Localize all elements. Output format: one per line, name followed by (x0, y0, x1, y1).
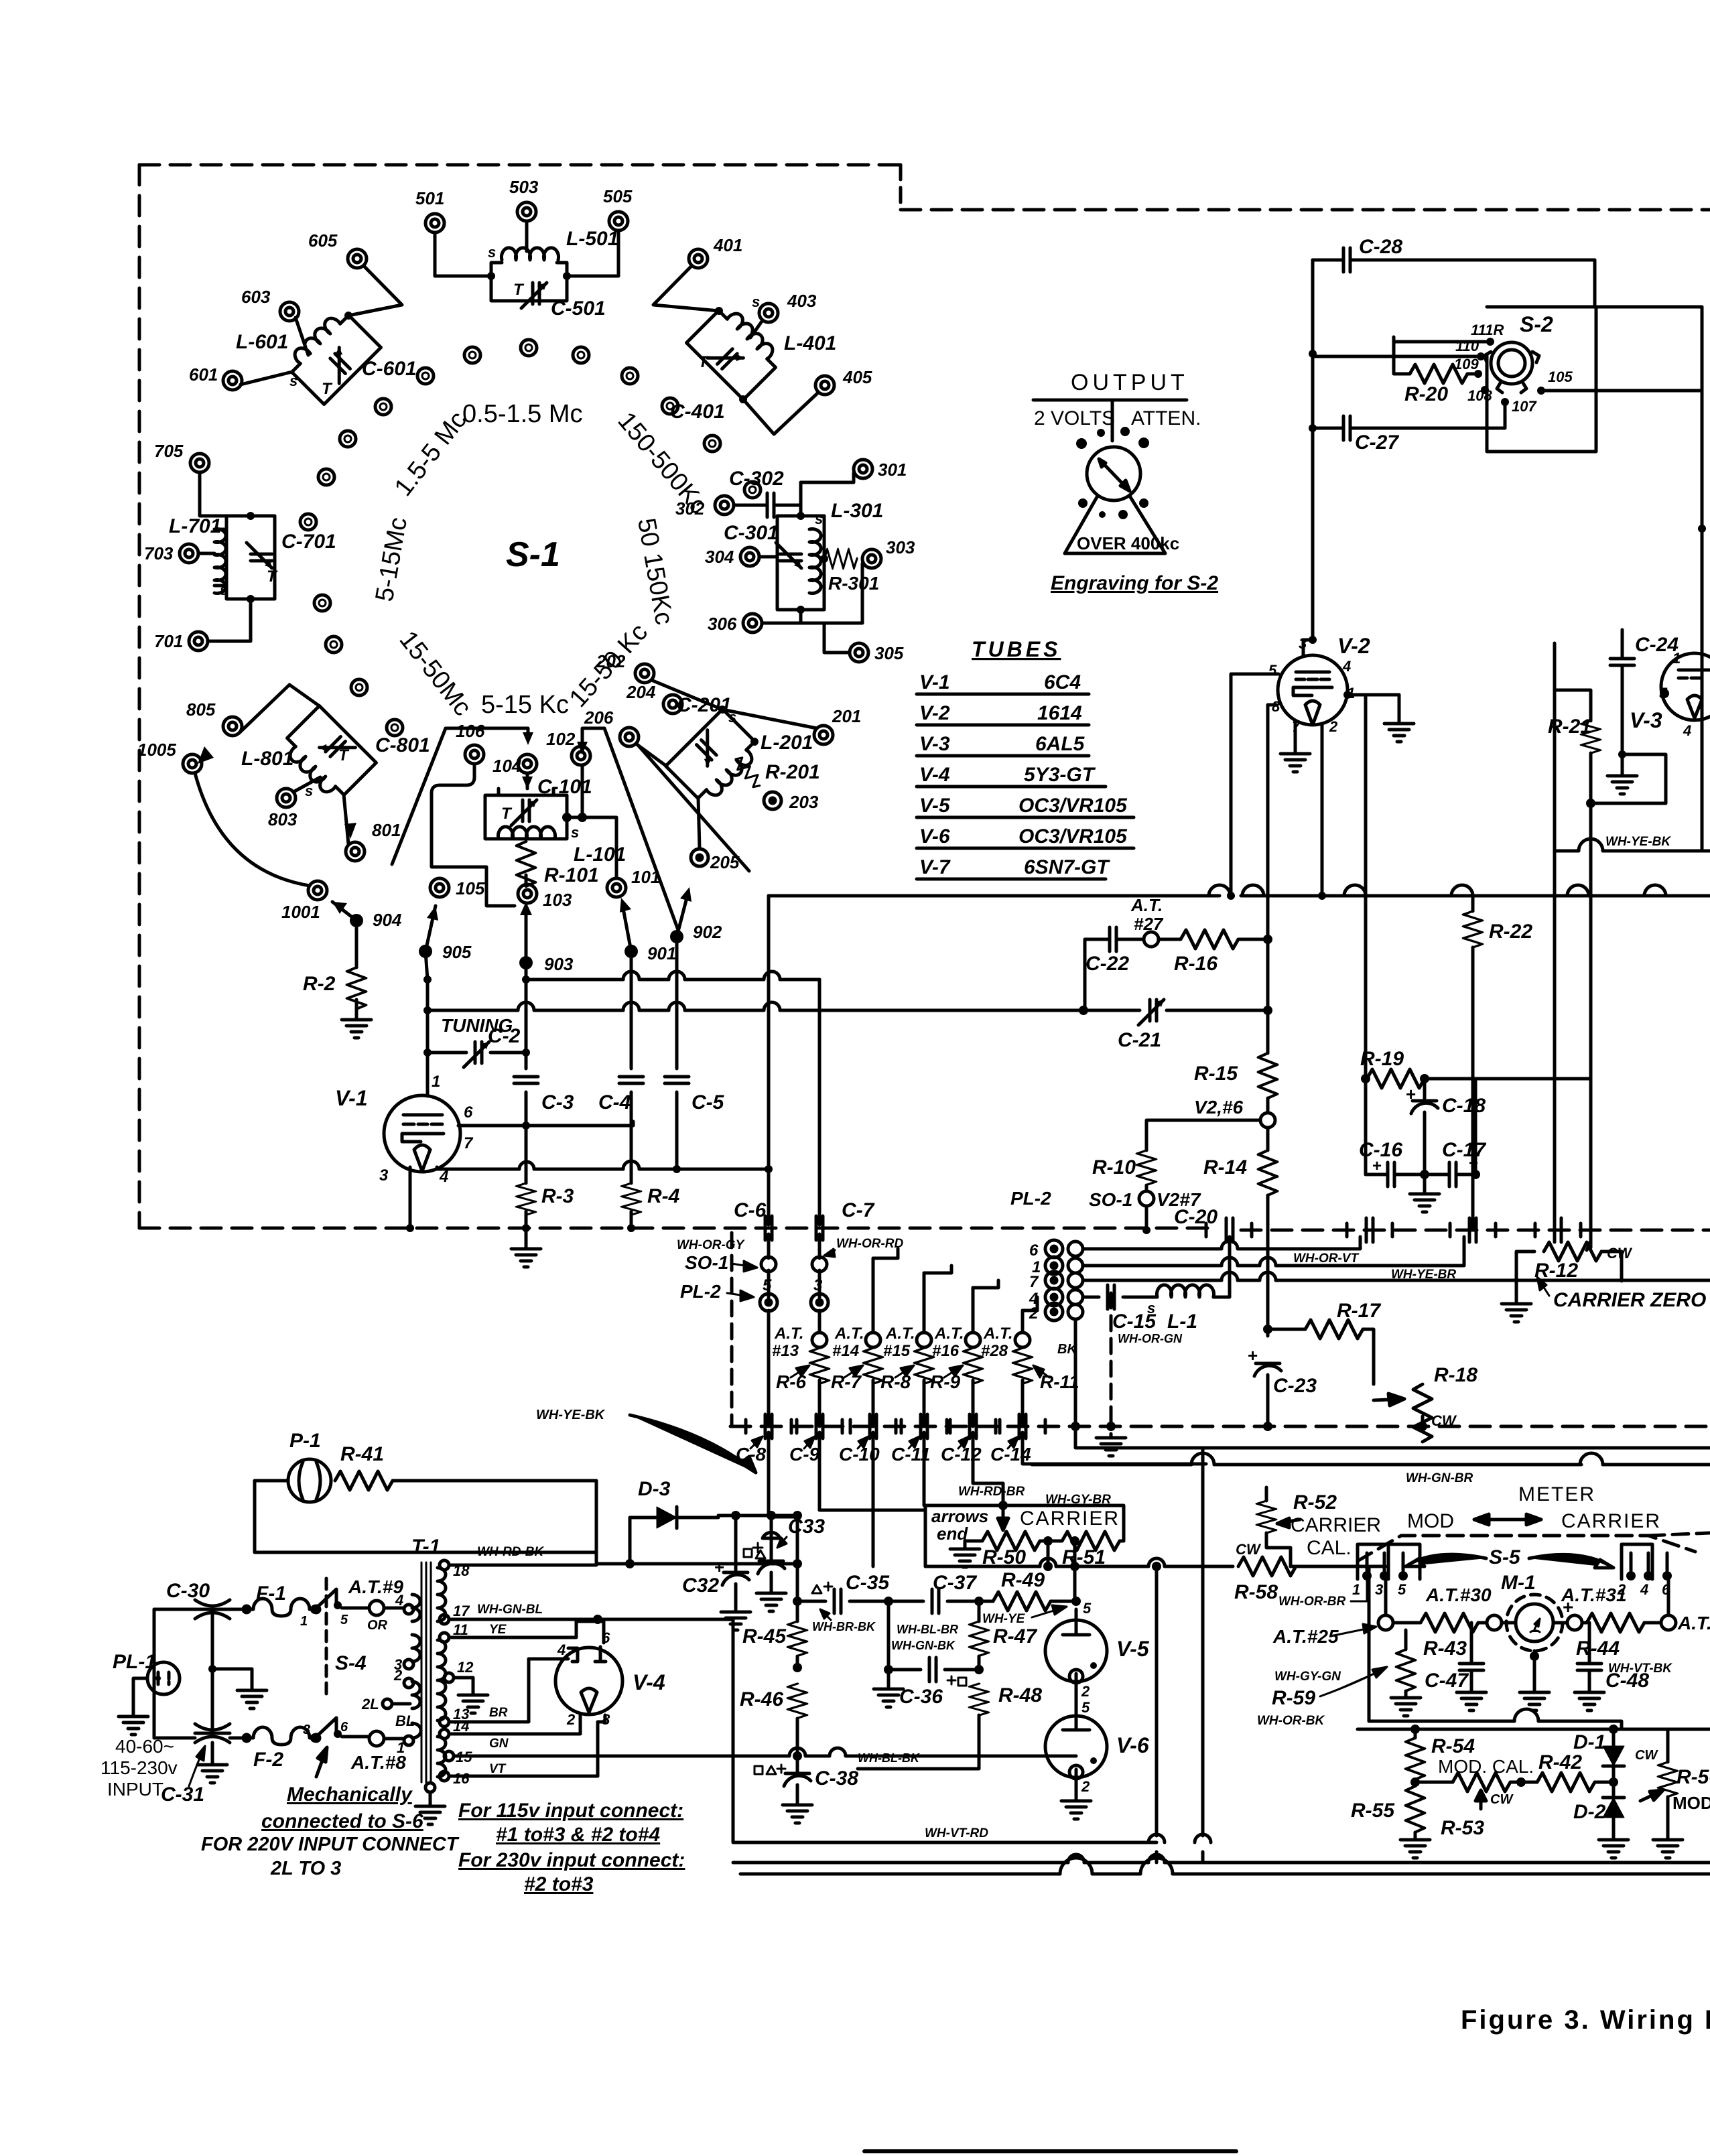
tube V-2 internals (1293, 672, 1332, 725)
wire 304 to C-301 (759, 555, 777, 559)
wire 110 to left riser (1313, 355, 1481, 358)
wire C-23 to dashed shield (1266, 1375, 1270, 1426)
hook curl on 106 wire (432, 785, 440, 793)
svg-text:C-2: C-2 (488, 1025, 521, 1047)
variable capacitor C-301 (776, 543, 801, 568)
svg-text:R-17: R-17 (1337, 1300, 1381, 1322)
svg-text:306: 306 (708, 614, 737, 634)
wire A.T.25 to meter (1393, 1621, 1514, 1625)
tube V-1 internals (402, 1115, 444, 1171)
wire R-19 branch (1425, 1077, 1475, 1081)
wire pin1 to WH-YE-BR cap (1083, 1237, 1464, 1266)
terminal 105 (430, 878, 449, 897)
meter module box (1369, 1566, 1710, 1729)
wire A.T.15 top corner (924, 1266, 951, 1273)
terminal 306 (743, 614, 762, 632)
svg-text:A.T.: A.T. (885, 1325, 915, 1343)
svg-text:V2,#6: V2,#6 (1194, 1097, 1244, 1118)
inductor L-101 coil (499, 827, 555, 839)
junction dots on y=2581 (1410, 1725, 1420, 1734)
svg-text:#15: #15 (883, 1342, 911, 1360)
ground below V-2 pin7 (1280, 750, 1310, 772)
svg-text:C-201: C-201 (677, 694, 732, 716)
svg-text:R-51: R-51 (1062, 1546, 1106, 1568)
wire 803 to L-801 coil (293, 777, 320, 792)
svg-text:405: 405 (842, 367, 872, 387)
resistor R-46 (788, 1684, 807, 1719)
wire V-1 cathode pin 4 to the right (437, 1167, 769, 1169)
contact 109 (1474, 370, 1482, 378)
T-1 terminal 15 tap (444, 1751, 454, 1761)
wire V-2 pin1 to ground (1345, 695, 1399, 720)
fuse F-2 (243, 1727, 320, 1745)
svg-text:OR: OR (367, 1618, 388, 1633)
svg-text:206: 206 (584, 708, 614, 728)
inductor L-801 tank (rotated) (279, 706, 377, 804)
svg-text:R-53: R-53 (1441, 1817, 1484, 1839)
svg-text:R-20: R-20 (1404, 383, 1448, 405)
svg-text:5: 5 (340, 1613, 348, 1627)
wire 303 to R-301 (824, 563, 862, 623)
svg-text:GN: GN (489, 1737, 509, 1751)
junction dot L-201 corners (718, 705, 726, 714)
tube V-4 envelope (555, 1647, 622, 1714)
wire C-6 column to caps row (767, 1234, 771, 1426)
bottom page rule (864, 2149, 1236, 2153)
wire GN from 14 to V-4 pin2 (449, 1715, 580, 1734)
terminal 501 (425, 214, 444, 232)
svg-text:L-201: L-201 (761, 732, 813, 754)
meter needle (1530, 1619, 1540, 1632)
fuse F-1 (243, 1599, 320, 1616)
wire R-49 to V-5 column (1051, 1600, 1076, 1603)
terminal A.T.#16 (966, 1333, 980, 1347)
svg-text:111R: 111R (1471, 322, 1504, 338)
wire from loop to D-3 branch (595, 1552, 598, 1562)
svg-text:PL-1: PL-1 (113, 1651, 156, 1673)
svg-text:For 115v input connect:: For 115v input connect: (458, 1800, 683, 1822)
svg-text:WH-GN-BR: WH-GN-BR (1406, 1471, 1473, 1485)
wire through C-2 (427, 1051, 526, 1055)
svg-text:R-16: R-16 (1174, 953, 1218, 975)
svg-text:BR: BR (489, 1706, 508, 1720)
arrow C33 (777, 1537, 787, 1548)
T-1 terminal 17 (440, 1615, 449, 1624)
wire WH-GN-BL from 17 (449, 1619, 733, 1668)
capacitor C-20 on shield line (1226, 1218, 1233, 1242)
svg-text:601: 601 (189, 364, 218, 385)
wire C-48 column (1588, 1623, 1591, 1688)
terminal 302 (715, 496, 734, 515)
svg-text:R-47: R-47 (993, 1625, 1037, 1647)
capacitor C33 electrolytic (758, 1561, 785, 1574)
wire R-55 to ground (1414, 1832, 1417, 1836)
wire C32 column (734, 1515, 738, 1608)
hops on main B wire (1040, 1558, 1165, 1566)
wire y=2154 stub from pin2 column (1075, 1426, 1203, 1448)
svg-text:A.T.: A.T. (983, 1325, 1013, 1343)
terminal 201 (814, 726, 833, 744)
funnel right diagonal to 902 (604, 728, 678, 930)
terminal 701 (189, 632, 208, 651)
svg-text:CW: CW (1490, 1792, 1514, 1807)
svg-text:SO-1: SO-1 (1089, 1189, 1132, 1210)
svg-text:V-3: V-3 (919, 733, 950, 755)
svg-text:1001: 1001 (281, 902, 320, 922)
T-1 bottom core terminal and ground (425, 1783, 435, 1792)
wire 901 column down through C-4 R-4 (630, 951, 633, 1228)
wire: dashed enclosure top step (899, 165, 903, 210)
svg-text:4: 4 (1342, 658, 1351, 675)
wire A.T.28 top corner (1023, 1297, 1037, 1310)
terminal A.T.#28 (1015, 1333, 1030, 1347)
inductor L-601 tank (rotated) (283, 307, 381, 405)
svg-text:OC3/VR105: OC3/VR105 (1018, 825, 1128, 848)
junction dot C-22 left riser at y1508 (1079, 1006, 1088, 1015)
ground below C-47 (1457, 1688, 1486, 1710)
svg-text:R-201: R-201 (765, 761, 820, 783)
junction dot C-21 right (1263, 1006, 1272, 1015)
svg-text:WH-VT-BK: WH-VT-BK (1608, 1662, 1672, 1676)
diode D-3 (657, 1507, 677, 1528)
svg-text:303: 303 (886, 537, 915, 557)
svg-text:4: 4 (1683, 722, 1691, 739)
jack ring position 10 (318, 469, 334, 485)
resistor R-14 (1258, 1150, 1277, 1195)
wire 902 column down through C-5 (675, 937, 679, 1169)
svg-text:105: 105 (456, 878, 485, 898)
junction dot C-24 bottom (1618, 750, 1626, 758)
svg-text:CARRIER ZERO: CARRIER ZERO (1553, 1289, 1706, 1311)
svg-text:CARRIER: CARRIER (1020, 1507, 1120, 1530)
junction dot L-401 corners (715, 307, 723, 315)
contact 111R (1486, 338, 1494, 346)
wire: hops on y=1462 (623, 971, 780, 980)
switch S-2 enclosure box (1487, 307, 1596, 452)
wire C-35 to C-37 (889, 1600, 978, 1603)
contact 107 (1501, 398, 1509, 406)
wire C-7 column to caps row (818, 1234, 821, 1333)
resistor R-12 (pot) (1544, 1242, 1601, 1261)
jack ring position 2 (521, 340, 537, 356)
svg-text:6SN7-GT: 6SN7-GT (1024, 856, 1110, 878)
junction dot x1326 (884, 1597, 893, 1606)
resistor R-10 (1137, 1150, 1156, 1185)
wire R-47 column (978, 1601, 981, 1670)
switch S-4 lower pole (310, 1733, 320, 1743)
wire: hops on y=1508 (518, 1002, 780, 1010)
feedthrough capacitor C-30 (195, 1600, 230, 1619)
svg-text:BL: BL (395, 1712, 415, 1729)
svg-text:R-44: R-44 (1576, 1637, 1620, 1660)
svg-text:305: 305 (874, 643, 904, 663)
contact 903 (519, 956, 533, 969)
svg-text:+: + (1406, 1084, 1416, 1104)
arrow C-10 (858, 1436, 868, 1448)
junction dot L-601 top corner (344, 312, 352, 320)
terminal 705 (190, 454, 209, 472)
variable capacitor C-21 (1138, 1000, 1164, 1025)
svg-text:A.T.: A.T. (1130, 895, 1163, 915)
wire pin2 down to caps row (1074, 1319, 1077, 1426)
svg-text:R-55: R-55 (1351, 1800, 1395, 1822)
switch S-5 left contact box (1358, 1544, 1388, 1579)
arrow to CARRIER ZERO (1537, 1277, 1549, 1296)
box around regulator section (733, 1668, 1157, 1842)
vertical riser x=317 (211, 1609, 214, 1733)
svg-text:R-48: R-48 (998, 1684, 1042, 1706)
resistor R-4 (622, 1183, 641, 1215)
jack ring position 15 (351, 679, 367, 695)
jack ring position 4 (417, 368, 434, 384)
svg-text:C-31: C-31 (161, 1783, 204, 1806)
wire R-46 column (796, 1719, 799, 1756)
wire: dashed enclosure top border right part (901, 208, 1710, 212)
junction dot on oscillator bus (522, 975, 530, 984)
svg-text:C-21: C-21 (1118, 1029, 1161, 1051)
wire 201 to L-201 (722, 710, 817, 728)
wire D-1 column (1612, 1729, 1616, 1798)
svg-text:304: 304 (705, 547, 734, 567)
polarity marks C-38 (754, 1765, 785, 1774)
funnel line right from 206 to L-201 area (638, 745, 749, 871)
terminal 601 (223, 371, 242, 390)
wire: dashed shield line through C-8..C-14 row (730, 1425, 1710, 1428)
junction dot 638/1571 (423, 1049, 432, 1057)
ground below C-48 (1575, 1688, 1604, 1710)
wire R-59 column (1404, 1630, 1408, 1694)
svg-text:A.T.#9: A.T.#9 (348, 1576, 403, 1597)
svg-text:V-5: V-5 (1116, 1637, 1150, 1661)
resistor R-44 (1587, 1613, 1644, 1632)
ground on shield line below C-15 (1096, 1434, 1126, 1456)
wire V-1 pin3 down to shield (409, 1167, 412, 1228)
wire below C-10 (872, 1432, 875, 1566)
capacitor C-15 (1108, 1285, 1114, 1309)
resistor R-16 (1181, 930, 1238, 949)
svg-text:#2 to#3: #2 to#3 (524, 1873, 594, 1895)
switch S-5 left contact box 2 (1388, 1544, 1420, 1579)
arrow SO-1 to socket (732, 1261, 757, 1272)
svg-text:CARRIER: CARRIER (1561, 1510, 1661, 1532)
junction dot R-18 at shield (1418, 1422, 1427, 1431)
wire from 501 to L-501 tank (435, 232, 491, 276)
svg-text:TUBES: TUBES (972, 637, 1061, 661)
long double wires bottom (733, 1861, 1710, 1865)
resistor R-48 (970, 1684, 988, 1715)
wire F-1 to contact 1 (315, 1608, 316, 1611)
svg-text:R-45: R-45 (742, 1625, 787, 1647)
svg-text:A.T.: A.T. (774, 1325, 804, 1343)
svg-text:s: s (752, 293, 760, 310)
wire 904 down to R-2 (355, 921, 358, 967)
junction dots D-3 net (625, 1559, 635, 1568)
capacitor C-11 (921, 1414, 927, 1438)
wire V2#7 stub to shield (1145, 1206, 1148, 1230)
dashed S-5 right segment (1648, 1533, 1710, 1536)
diode D-2 (1603, 1798, 1624, 1818)
svg-text:s: s (1147, 1300, 1155, 1317)
svg-text:5: 5 (1081, 1699, 1090, 1716)
wire below C-12 (973, 1432, 1003, 1505)
terminal 603 (280, 302, 299, 321)
terminal 803 (277, 789, 295, 807)
svg-text:105: 105 (1548, 368, 1573, 385)
svg-text:C-17: C-17 (1442, 1139, 1486, 1161)
tube V-6 internals (1063, 1716, 1090, 1779)
svg-text:2: 2 (1081, 1778, 1090, 1795)
wire 805 to L-801 (239, 685, 320, 733)
svg-text:R-4: R-4 (647, 1185, 680, 1207)
wire V-2 pin7 down to ground (1294, 722, 1297, 750)
junction dot pin7 wire at C-3 (522, 1122, 530, 1130)
arrow WH-BR-BK (820, 1609, 831, 1620)
svg-text:2: 2 (393, 1667, 403, 1684)
svg-text:106: 106 (456, 721, 485, 741)
terminal 202 (635, 664, 654, 683)
svg-text:T-1: T-1 (411, 1536, 440, 1558)
svg-text:0.5-1.5 Mc: 0.5-1.5 Mc (462, 400, 583, 428)
svg-text:METER: METER (1518, 1483, 1595, 1505)
meter M-1 body (1516, 1604, 1553, 1641)
resistor R-56 (1658, 1762, 1677, 1797)
wire C-22 branch (1085, 939, 1268, 1010)
terminal A.T.#8 (369, 1731, 384, 1746)
wire riser x=1795 (1201, 1448, 1205, 1863)
capacitor C-3 (514, 1077, 538, 1083)
svg-text:connected to S-6: connected to S-6 (261, 1810, 423, 1832)
svg-text:401: 401 (713, 235, 742, 255)
double arrow MOD-CARRIER (1474, 1514, 1541, 1525)
arrow R-59 (1320, 1667, 1387, 1696)
arrow WH-YE-BK long (630, 1415, 756, 1473)
junction dot D-1 bottom (1609, 1777, 1618, 1787)
capacitor C-28 (1343, 248, 1350, 272)
plug PL-2 contact under 5 (760, 1294, 777, 1311)
resistor R-20 (1410, 364, 1467, 383)
T-1 terminal 13 (440, 1717, 449, 1727)
wire R-22 column (1471, 896, 1475, 1230)
capacitor C-16 (1388, 1162, 1394, 1187)
terminal 505 (609, 212, 628, 230)
wire vertical long from R-21 dot to R-12 (1589, 803, 1593, 1248)
junction dot riser at C-27 (1309, 424, 1317, 432)
svg-text:R-3: R-3 (541, 1185, 574, 1207)
capacitor C-5 (665, 1077, 689, 1083)
svg-text:904: 904 (373, 910, 402, 930)
arrow A.T.25 (1331, 1624, 1376, 1636)
terminal 503 (517, 202, 536, 221)
junction dot pin3 at shield (406, 1224, 414, 1232)
wire left riser of S-2 loop (1311, 260, 1315, 640)
terminal 801 (346, 842, 365, 861)
wire C-31 ground (211, 1743, 214, 1761)
svg-text:3: 3 (303, 1723, 310, 1737)
capacitor C-10 (870, 1414, 876, 1438)
svg-text:5: 5 (1398, 1581, 1406, 1598)
wire top feed y=2186 (1032, 1463, 1710, 1467)
ground below R-56 (1653, 1836, 1683, 1858)
svg-text:#14: #14 (832, 1342, 859, 1360)
polarity marks C-36 (947, 1676, 966, 1686)
socket SO-1 contact 5 (761, 1257, 776, 1272)
svg-text:A.T.: A.T. (834, 1325, 864, 1343)
svg-text:WH-BR-BK: WH-BR-BK (812, 1620, 876, 1633)
svg-text:2: 2 (566, 1711, 576, 1728)
wire 305 to tank bottom loop (801, 623, 850, 653)
svg-text:R-301: R-301 (828, 573, 879, 594)
svg-text:R-10: R-10 (1092, 1156, 1136, 1178)
junction dot cathode wire at C-5 (673, 1165, 681, 1173)
connector SO-1 pins column (1068, 1241, 1083, 1319)
junction dot pin2 riser at bus (1318, 892, 1326, 900)
funnel left diagonal (392, 728, 446, 864)
svg-text:C-38: C-38 (815, 1767, 858, 1790)
resistor R-50 (pot) (982, 1532, 1040, 1550)
dashed S-5 boundary (1358, 1536, 1695, 1561)
svg-text:MOD. CAL.: MOD. CAL. (1438, 1756, 1534, 1777)
svg-text:WH-VT-RD: WH-VT-RD (925, 1826, 988, 1840)
terminal 1005 (183, 754, 202, 773)
wire R-50 to R-51 (1040, 1541, 1124, 1566)
svg-text:PL-2: PL-2 (680, 1281, 721, 1302)
svg-text:C-14: C-14 (990, 1444, 1031, 1465)
svg-text:A.T.#8: A.T.#8 (350, 1752, 406, 1773)
tube V-3 envelope (clipped at right) (1661, 653, 1710, 720)
jack ring position 14 (326, 636, 342, 653)
ground below meter (1520, 1688, 1549, 1710)
svg-text:801: 801 (372, 820, 401, 840)
svg-text:107: 107 (1512, 398, 1537, 415)
svg-text:WH-GY-GN: WH-GY-GN (1274, 1670, 1341, 1684)
svg-text:C-7: C-7 (842, 1199, 875, 1221)
wire C-35 row (797, 1600, 889, 1603)
svg-text:R-14: R-14 (1203, 1156, 1247, 1178)
svg-text:R-46: R-46 (740, 1688, 783, 1710)
junction dot V2#7 at shield (1142, 1226, 1150, 1234)
junction dot R-47 top (974, 1597, 984, 1606)
arrow R-56 wiper (1640, 1790, 1663, 1801)
terminal 405 (815, 376, 834, 395)
jack ring position 8 (340, 431, 356, 447)
T-1 primary terminal 2 (404, 1678, 413, 1688)
wire C-18 column (1423, 1079, 1427, 1174)
svg-text:C-3: C-3 (541, 1091, 574, 1114)
terminal 403 (759, 304, 778, 322)
svg-text:C-6: C-6 (734, 1199, 767, 1221)
svg-text:C-20: C-20 (1174, 1206, 1218, 1228)
svg-text:CW: CW (1635, 1748, 1658, 1763)
T-1 secondary winding 18-17 (438, 1568, 446, 1621)
wire 905 column down to V-1 grid (425, 951, 427, 1096)
wire s-node to 101 (567, 817, 616, 878)
svg-text:L-501: L-501 (566, 228, 618, 250)
svg-text:C-5: C-5 (692, 1091, 725, 1114)
junction dot R-16 right (1263, 935, 1272, 944)
svg-text:WH-GN-BK: WH-GN-BK (891, 1639, 956, 1652)
lamp P-1 (288, 1459, 331, 1502)
S-5 right contact dots (1626, 1571, 1636, 1580)
svg-text:2L: 2L (361, 1696, 379, 1712)
junction dot R-48 top (974, 1665, 984, 1674)
svg-text:WH-OR-VT: WH-OR-VT (1293, 1252, 1359, 1266)
contact 901 (624, 945, 638, 958)
meter M-1 dashed bezel (1506, 1595, 1563, 1651)
arrow into R-9 (944, 1365, 963, 1377)
wire 801 to L-801 (344, 795, 348, 844)
contact 105 (1537, 387, 1545, 395)
arrow on 102 riser (577, 742, 588, 754)
